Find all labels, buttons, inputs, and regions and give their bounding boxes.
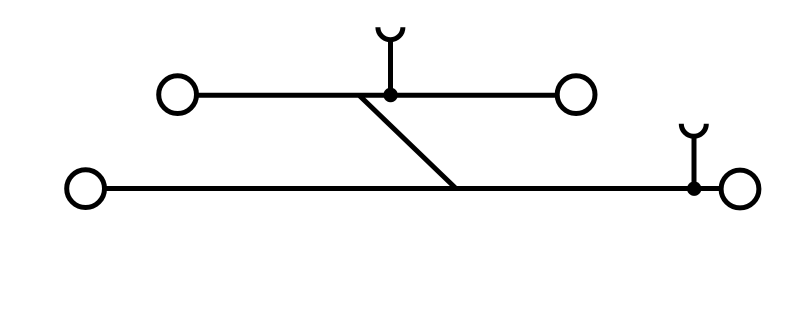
terminal X2 (upper right clamp point) <box>557 76 595 114</box>
test socket TP2 arc <box>681 124 706 137</box>
test socket TP2 stem <box>692 135 697 189</box>
wire: lower level conductor <box>86 186 740 191</box>
wire: diagonal bridge between levels <box>359 95 456 188</box>
junction node B (lower wire tap) <box>687 182 701 196</box>
terminal X3 (lower left clamp point) <box>67 170 105 208</box>
terminal X4 (lower right clamp point) <box>721 170 759 208</box>
wire: upper level conductor <box>178 93 576 98</box>
terminal X1 (upper left clamp point) <box>159 76 197 114</box>
junction node A (upper wire tap) <box>383 88 397 102</box>
test socket TP1 arc <box>378 27 403 40</box>
test socket TP1 stem <box>388 38 393 95</box>
